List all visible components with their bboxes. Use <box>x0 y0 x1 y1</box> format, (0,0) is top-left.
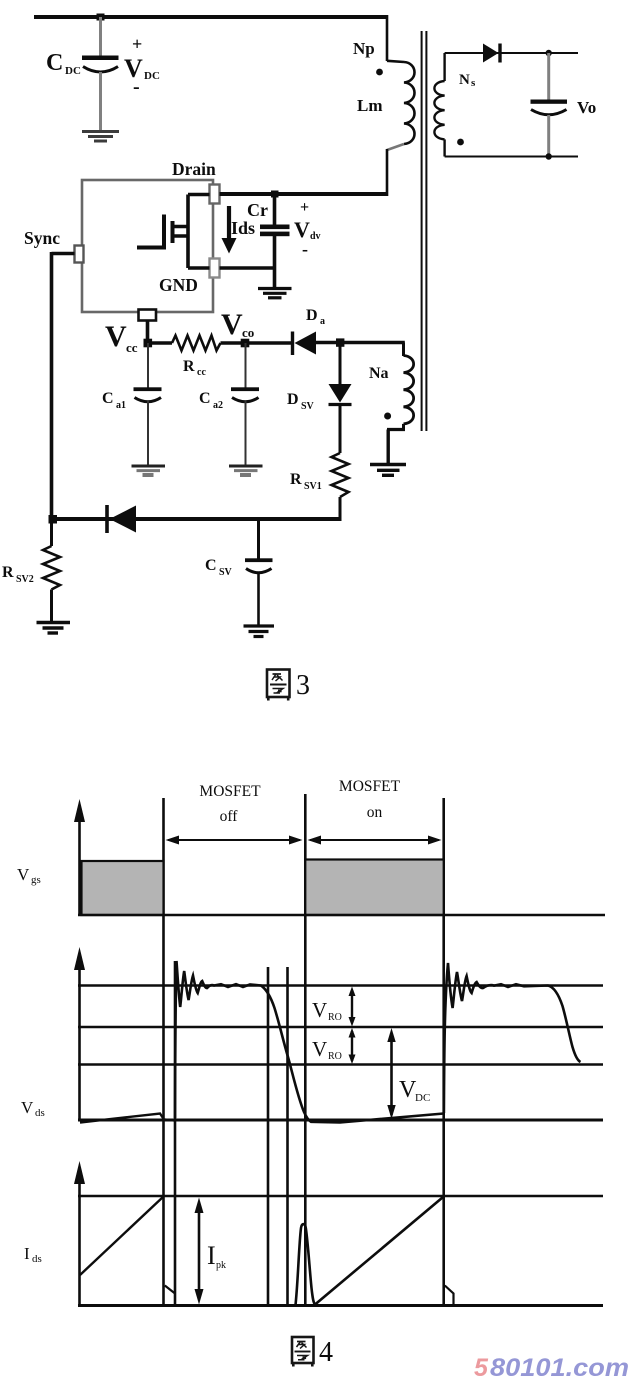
diode sync (on bus) <box>107 505 136 533</box>
arrow Ids current <box>222 206 256 254</box>
axis Vds <box>74 947 85 1121</box>
svg-text:D: D <box>287 391 299 408</box>
wire drain external to transformer <box>220 192 389 196</box>
node Na polarity dot <box>384 413 391 420</box>
capacitor CDC <box>46 17 160 130</box>
svg-text:Sync: Sync <box>24 228 60 248</box>
node junction Vo top <box>546 50 552 56</box>
svg-text:DC: DC <box>144 70 160 82</box>
resistor Rsv1 <box>332 453 349 497</box>
ground under CDC <box>82 132 119 142</box>
svg-text:C: C <box>205 557 217 574</box>
svg-text:V: V <box>221 308 243 341</box>
svg-text:Na: Na <box>369 365 389 382</box>
svg-text:SV: SV <box>301 401 315 412</box>
svg-text:R: R <box>290 471 302 488</box>
node junction Vo bottom <box>546 153 552 159</box>
svg-text:co: co <box>242 325 254 340</box>
Ids trace notch 2 <box>445 1286 454 1306</box>
Ids baseline <box>78 1304 603 1307</box>
axis Vgs <box>74 799 85 915</box>
wire bottom bus <box>52 517 342 521</box>
node junction Cr/drain <box>271 191 279 198</box>
gridline Vds mid2 <box>78 1063 603 1065</box>
svg-text:+: + <box>132 34 142 54</box>
svg-text:I: I <box>24 1244 30 1263</box>
svg-text:80101.com: 80101.com <box>490 1354 629 1381</box>
aux winding Na <box>369 343 414 464</box>
wire Dsv to Rsv1 <box>339 405 342 453</box>
marker line valley start <box>267 967 270 1306</box>
marker line valley end <box>286 967 289 1306</box>
capacitor Vo <box>531 53 597 157</box>
diode D output rectifier <box>483 44 500 63</box>
svg-text:MOSFET: MOSFET <box>199 783 261 800</box>
wire Vcc rail left <box>148 341 173 344</box>
svg-text:-: - <box>302 239 308 259</box>
wire gnd internal <box>188 266 210 270</box>
pin GND <box>210 259 220 278</box>
caption fig3 glyph <box>267 670 290 701</box>
Vgs baseline <box>78 914 605 917</box>
svg-text:N: N <box>459 72 470 88</box>
arrow Ipk <box>195 1198 227 1305</box>
svg-text:DC: DC <box>65 65 81 77</box>
resistor Rsv2 <box>43 546 60 590</box>
svg-text:a2: a2 <box>213 400 223 411</box>
wire Rsv1 to bus <box>339 497 342 521</box>
svg-text:Np: Np <box>353 39 375 58</box>
svg-text:V: V <box>312 998 327 1022</box>
transformer primary winding Lm / Np <box>387 15 415 196</box>
svg-text:dv: dv <box>310 231 321 242</box>
pin Sync <box>75 246 84 263</box>
boundary line t3 <box>442 798 445 1306</box>
ground under Ca2 <box>229 466 263 475</box>
node Vco <box>241 339 250 348</box>
ground under Na <box>370 465 406 476</box>
svg-text:V: V <box>17 865 30 884</box>
svg-text:V: V <box>312 1037 327 1061</box>
svg-text:C: C <box>102 390 114 407</box>
svg-text:off: off <box>220 808 239 825</box>
wire sync horizontal <box>52 252 75 256</box>
svg-text:C: C <box>46 50 63 76</box>
Vds trace ringing 1 and fall <box>175 961 444 1123</box>
node junction Cdc/top-rail <box>97 14 105 21</box>
wire Rsv2 to ground <box>50 590 53 622</box>
axis Ids <box>74 1161 85 1306</box>
Vgs pulse 2 <box>305 860 443 916</box>
svg-text:V: V <box>105 320 127 353</box>
ground under Ca1 <box>132 466 166 475</box>
boundary line t1 <box>162 798 165 1306</box>
capacitor Ca1 <box>102 343 162 465</box>
svg-text:C: C <box>199 390 211 407</box>
svg-text:3: 3 <box>296 670 310 701</box>
svg-text:R: R <box>2 564 14 581</box>
wire Rcc to Vco <box>221 341 292 344</box>
svg-text:+: + <box>300 199 309 216</box>
svg-text:s: s <box>471 77 476 89</box>
wire sync vertical <box>50 252 54 520</box>
svg-text:RO: RO <box>328 1051 342 1062</box>
capacitor Cr <box>247 194 321 288</box>
Vds trace ringing 2 and fall <box>444 963 581 1113</box>
svg-text:RO: RO <box>328 1012 342 1023</box>
svg-text:4: 4 <box>319 1337 333 1368</box>
ground under Cr <box>258 289 292 298</box>
arrow span off <box>166 836 303 845</box>
capacitor Csv <box>205 519 273 625</box>
gridline Vds ring level <box>78 984 603 986</box>
pin Vcc bottom <box>139 310 157 321</box>
wire Da to Na <box>316 341 405 344</box>
svg-text:Drain: Drain <box>172 159 216 179</box>
svg-text:on: on <box>367 804 383 821</box>
svg-text:a1: a1 <box>116 400 126 411</box>
svg-text:-: - <box>133 76 140 98</box>
arrow VRO upper <box>312 987 356 1027</box>
svg-text:Ids: Ids <box>231 218 255 238</box>
svg-text:a: a <box>320 316 325 327</box>
transformer secondary winding Ns <box>434 53 444 157</box>
svg-text:cc: cc <box>197 367 206 378</box>
IC block U1 outline <box>82 180 213 312</box>
svg-text:Vo: Vo <box>577 98 596 117</box>
svg-text:V: V <box>21 1098 34 1117</box>
node Vcc <box>144 339 153 348</box>
Vgs pulse 1 <box>82 861 164 915</box>
Vds trace pre-off ramp <box>80 1114 175 1123</box>
node junction Dsv/Na <box>336 338 344 346</box>
wire node to Dsv <box>339 343 342 385</box>
marker line Vds rising edge <box>174 961 177 1306</box>
node Ns polarity dot <box>457 139 464 146</box>
diode Da <box>293 307 326 355</box>
Vds baseline <box>78 1119 603 1122</box>
caption fig4 glyph <box>292 1337 314 1367</box>
svg-text:SV: SV <box>219 567 233 578</box>
watermark <box>474 1354 629 1381</box>
wire sync node to Rsv2 <box>50 519 53 546</box>
svg-text:SV2: SV2 <box>16 574 34 585</box>
diode Dsv <box>287 384 352 412</box>
gridline Vds mid1 <box>78 1026 603 1028</box>
Ids trace ramp 1 <box>80 1197 164 1276</box>
svg-text:D: D <box>306 307 318 324</box>
transistor Q1 MOSFET inside U1 <box>137 195 190 269</box>
transformer core <box>421 31 423 431</box>
arrow VRO lower <box>312 1028 356 1064</box>
gridline Ipk level <box>78 1195 603 1198</box>
resistor Rcc <box>172 336 221 351</box>
arrow span on <box>308 836 442 845</box>
svg-text:GND: GND <box>159 275 198 295</box>
svg-text:Cr: Cr <box>247 200 268 220</box>
ground under Rsv2 <box>37 623 71 634</box>
svg-text:I: I <box>207 1241 216 1270</box>
wire drain internal <box>188 193 210 197</box>
pin Drain <box>210 185 220 204</box>
svg-text:Lm: Lm <box>357 96 383 115</box>
svg-text:pk: pk <box>216 1260 226 1271</box>
wire secondary top rail <box>445 52 578 54</box>
svg-text:ds: ds <box>32 1253 42 1265</box>
svg-text:MOSFET: MOSFET <box>339 778 401 795</box>
wire top DC rail <box>34 15 388 19</box>
svg-text:R: R <box>183 358 195 375</box>
Ids trace notch 1 <box>165 1286 175 1294</box>
capacitor Ca2 <box>199 343 259 465</box>
arrow VDC <box>387 1028 430 1119</box>
svg-text:DC: DC <box>415 1092 430 1104</box>
wire Vcc pin down <box>146 320 150 344</box>
svg-text:5: 5 <box>474 1354 489 1381</box>
svg-text:ds: ds <box>35 1107 45 1119</box>
Ids trace spike and ramp 2 <box>296 1197 444 1306</box>
node junction sync/bus <box>49 515 58 524</box>
svg-text:cc: cc <box>126 340 138 355</box>
boundary line t2 <box>304 794 307 1306</box>
svg-text:gs: gs <box>31 874 41 886</box>
wire gnd pin to Cr <box>220 266 277 270</box>
svg-text:SV1: SV1 <box>304 481 322 492</box>
wire secondary bottom rail <box>445 156 578 158</box>
node Np polarity dot <box>376 69 383 76</box>
ground under Csv <box>244 626 275 637</box>
